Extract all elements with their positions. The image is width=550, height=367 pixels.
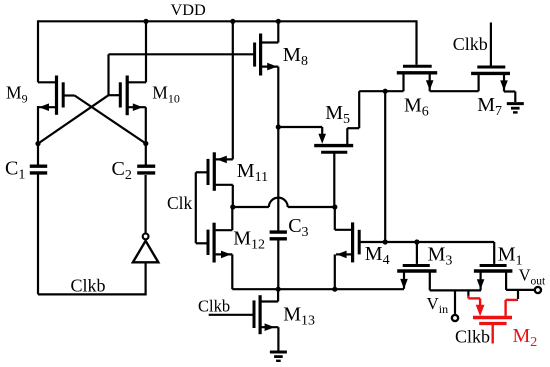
svg-text:M8: M8 xyxy=(283,44,308,69)
svg-text:Clkb: Clkb xyxy=(198,296,230,315)
svg-text:M7: M7 xyxy=(477,94,502,119)
svg-text:M1: M1 xyxy=(498,243,523,268)
svg-text:M12: M12 xyxy=(233,228,265,253)
svg-text:Clkb: Clkb xyxy=(453,34,488,54)
svg-text:M9: M9 xyxy=(6,83,28,106)
svg-text:VDD: VDD xyxy=(171,0,207,19)
svg-text:Vin: Vin xyxy=(427,294,449,316)
svg-text:C2: C2 xyxy=(112,158,132,183)
svg-text:Clkb: Clkb xyxy=(455,327,490,347)
svg-text:M10: M10 xyxy=(152,83,180,106)
svg-text:Clkb: Clkb xyxy=(71,276,106,296)
svg-text:M13: M13 xyxy=(283,304,315,329)
svg-text:C1: C1 xyxy=(5,158,25,183)
svg-text:C3: C3 xyxy=(288,215,308,240)
svg-text:M11: M11 xyxy=(237,160,268,185)
svg-text:M5: M5 xyxy=(325,102,350,127)
svg-text:M3: M3 xyxy=(428,243,453,268)
svg-text:M2: M2 xyxy=(513,325,538,350)
svg-text:M4: M4 xyxy=(365,243,390,268)
svg-text:Vout: Vout xyxy=(519,266,546,288)
svg-text:Clk: Clk xyxy=(167,193,193,213)
svg-text:M6: M6 xyxy=(404,95,429,120)
